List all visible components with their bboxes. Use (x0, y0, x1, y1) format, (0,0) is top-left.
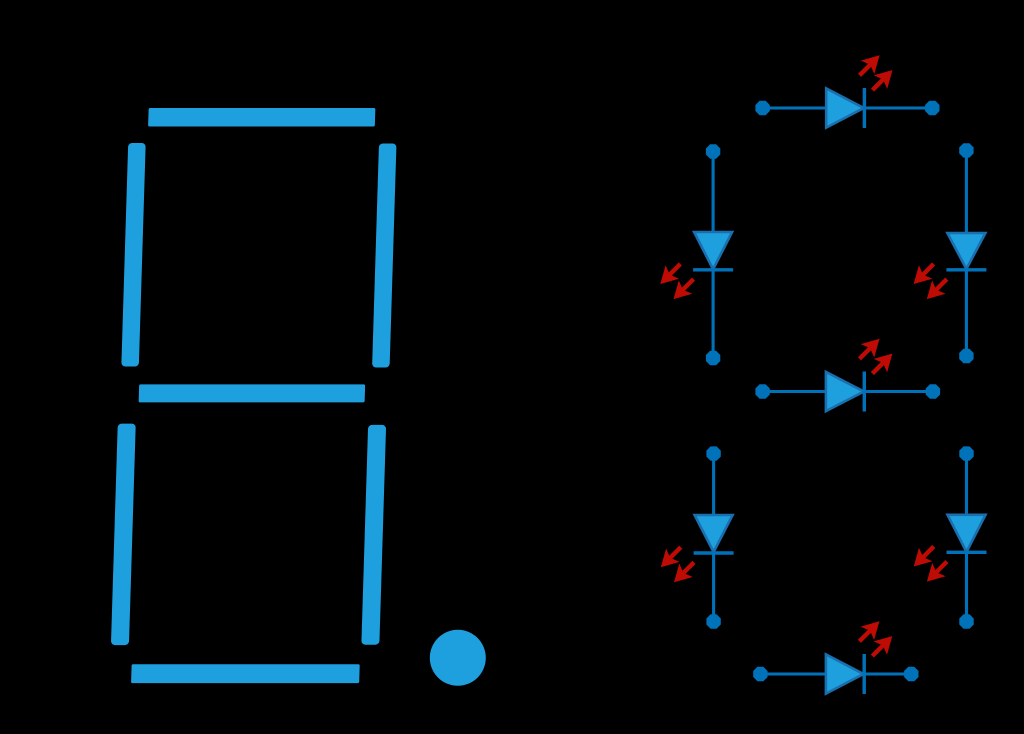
LED f cathode bar (693, 268, 733, 271)
wire d cathode lead (864, 672, 911, 675)
terminal node c2 (959, 614, 973, 628)
wire c cathode lead (965, 552, 968, 621)
terminal node b1 (959, 143, 973, 157)
LED c anode triangle (948, 515, 986, 552)
seven-segment display digit (left) (110, 108, 398, 683)
segment DP (decimal point) (430, 630, 486, 686)
LED f anode triangle (694, 232, 732, 269)
LED d anode triangle (826, 654, 864, 693)
LED g anode triangle (826, 372, 864, 411)
LED a anode triangle (826, 88, 864, 127)
segment C (lower right) (361, 425, 386, 645)
terminal node e1 (706, 446, 720, 460)
light arrow gb (866, 347, 899, 380)
wire e cathode lead (712, 553, 715, 622)
light arrow ba (907, 257, 940, 290)
light arrow db (866, 629, 899, 662)
light arrow eb (667, 556, 700, 589)
terminal node f1 (706, 144, 720, 158)
light arrow ab (866, 63, 899, 96)
wire c anode lead (965, 454, 968, 515)
segment B (upper right) (372, 144, 396, 368)
segment D (bottom) (131, 664, 360, 683)
light arrow fa (654, 257, 687, 290)
wire d anode lead (760, 672, 826, 675)
light arrow da (853, 615, 886, 648)
wire a anode lead (763, 106, 827, 109)
light arrow bb (920, 272, 953, 305)
light arrow ca (907, 540, 940, 573)
wire a cathode lead (864, 106, 932, 109)
LED c cathode bar (947, 551, 987, 554)
wire g cathode lead (864, 390, 933, 393)
segment A (top) (148, 108, 375, 127)
terminal node g2 (926, 384, 940, 398)
terminal node f2 (706, 351, 720, 365)
segment F (upper left) (121, 143, 145, 367)
LED g cathode bar (863, 372, 866, 412)
terminal node a1 (755, 101, 769, 115)
light arrow ea (654, 540, 687, 573)
terminal node d2 (904, 667, 918, 681)
LED b anode triangle (947, 233, 985, 269)
wire e anode lead (712, 454, 715, 515)
light arrow ga (853, 332, 886, 365)
segment G (middle) (139, 384, 366, 402)
wire b anode lead (965, 150, 968, 233)
terminal node e2 (706, 614, 720, 628)
LED b cathode bar (946, 268, 986, 271)
light arrow aa (853, 49, 886, 82)
LED d cathode bar (863, 654, 866, 694)
terminal node b2 (959, 349, 973, 363)
wire b cathode lead (965, 270, 968, 356)
terminal node g1 (755, 384, 769, 398)
light arrow fb (667, 272, 700, 305)
terminal node d1 (753, 667, 767, 681)
LED e cathode bar (694, 551, 734, 554)
LED a cathode bar (863, 88, 866, 128)
terminal node c1 (959, 446, 973, 460)
wire f cathode lead (712, 270, 715, 358)
light arrow cb (920, 555, 953, 588)
terminal node a2 (925, 101, 939, 115)
segment E (lower left) (111, 424, 136, 645)
LED e anode triangle (695, 515, 733, 552)
wire g anode lead (763, 390, 826, 393)
wire f anode lead (712, 152, 715, 233)
